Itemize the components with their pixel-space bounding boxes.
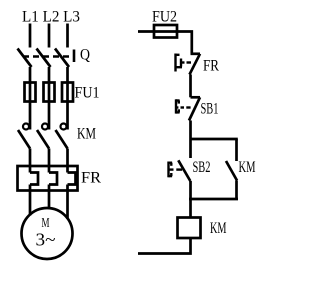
coil KM label <box>210 220 227 237</box>
FR heater pole 1 <box>30 173 38 185</box>
wire node to coil <box>189 199 192 218</box>
control supply top wire <box>138 32 192 54</box>
svg-text:FU2: FU2 <box>152 9 177 26</box>
svg-text:SB2: SB2 <box>193 159 211 176</box>
wire pole2 switch to KM <box>48 67 51 130</box>
svg-text:KM: KM <box>239 159 256 176</box>
svg-text:FR: FR <box>203 58 219 75</box>
SB2 button actuator <box>169 162 183 178</box>
wire pole3 FR to motor <box>66 185 69 220</box>
wire pole2 FR to motor <box>48 185 51 210</box>
svg-text:KM: KM <box>77 126 96 143</box>
switch Q pole 3 blade <box>55 49 69 68</box>
SB2 lower wire <box>189 181 192 199</box>
contactor KM pole 1 blade <box>18 130 30 149</box>
wire pole3 switch to KM <box>66 67 69 130</box>
switch Q dashed link <box>23 55 73 57</box>
svg-text:3~: 3~ <box>36 230 56 250</box>
SB1 NC contact blade <box>189 97 200 120</box>
SB1 label <box>201 101 219 118</box>
contactor KM pole 3 blade <box>56 130 68 149</box>
FR NC contact blade <box>190 54 201 75</box>
coil KM body <box>178 218 201 239</box>
svg-text:FR: FR <box>81 170 101 187</box>
wire FR to SB1 <box>189 75 192 98</box>
SB2 upper wire <box>189 139 192 158</box>
wire pole2 KM to FR <box>48 149 51 173</box>
SB2 label <box>193 159 211 176</box>
wire L1 drop <box>29 24 32 48</box>
thermal relay FR box <box>18 166 78 191</box>
wire pole3 KM to FR <box>66 149 69 173</box>
wire KM branch upper <box>235 139 238 161</box>
FR trip actuator <box>176 54 192 72</box>
SB1 NC contact fixed tick <box>191 96 201 99</box>
FR label <box>81 170 101 187</box>
coil bottom return wire <box>138 238 191 254</box>
FR heater pole 2 <box>49 173 57 185</box>
FR contact label <box>203 58 219 75</box>
svg-text:Q: Q <box>80 47 90 64</box>
branch bottom wire <box>189 198 238 201</box>
motor 3~ label <box>36 230 56 250</box>
contactor KM pole 2 blade <box>37 130 49 149</box>
motor M label <box>42 216 50 231</box>
fuse FU1 pole 1 <box>25 83 36 102</box>
branch top wire <box>191 138 238 141</box>
wire L2 drop <box>48 24 51 48</box>
svg-text:SB1: SB1 <box>201 101 219 118</box>
KM aux contact blade <box>226 161 237 181</box>
svg-text:KM: KM <box>210 220 227 237</box>
wire pole1 KM to FR <box>29 149 32 173</box>
SB2 NO contact blade <box>178 160 190 181</box>
contactor KM pole 3 circle <box>61 124 67 130</box>
wire pole1 switch to KM <box>29 67 32 130</box>
fuse FU1 label <box>75 85 100 102</box>
fuse FU2 body <box>154 25 177 38</box>
switch Q label <box>80 47 90 64</box>
fuse FU1 pole 2 <box>44 83 55 102</box>
contactor KM label <box>77 126 96 143</box>
svg-text:L1 L2 L3: L1 L2 L3 <box>22 9 80 26</box>
SB1 button actuator <box>176 99 191 113</box>
wire SB1 to branch node <box>189 121 192 140</box>
switch Q pole 2 blade <box>37 49 51 68</box>
wire pole1 FR to motor <box>29 185 32 216</box>
KM aux lower wire <box>235 181 238 200</box>
FR NC contact fixed tick <box>191 52 201 55</box>
contactor KM pole 2 circle <box>42 124 48 130</box>
switch Q handle tick <box>73 50 76 63</box>
motor M circle <box>22 208 73 259</box>
fuse FU1 pole 3 <box>62 83 73 102</box>
FR heater pole 3 <box>68 173 76 185</box>
fuse FU2 label <box>152 9 177 26</box>
svg-text:FU1: FU1 <box>75 85 100 102</box>
KM aux label <box>239 159 256 176</box>
wire L3 drop <box>66 24 69 48</box>
contactor KM pole 1 circle <box>23 124 29 130</box>
node L1 L2 L3 labels <box>22 9 80 26</box>
switch Q pole 1 blade <box>18 49 32 68</box>
